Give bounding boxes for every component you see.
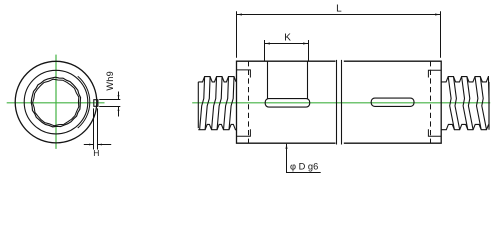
dimension K extension lines: [264, 40, 266, 61]
dimension W h9 line: [118, 92, 120, 100]
hidden line left: [248, 61, 250, 143]
leader line for diameter D: [287, 144, 321, 173]
svg-text:H: H: [93, 148, 99, 158]
screw shaft thread right section: [441, 77, 489, 130]
wiper ring edge right top: [428, 70, 441, 77]
wiper ring edge left bottom: [237, 129, 251, 136]
screw thread crest circle (jagged): [31, 77, 80, 127]
nut body left half outline: [237, 61, 336, 143]
svg-text:K: K: [284, 33, 291, 44]
dimension H line: [84, 144, 94, 146]
screw shaft thread left section: [198, 77, 236, 130]
wiper ring edge left top: [237, 70, 251, 78]
centerline horizontal (end view): [7, 102, 105, 104]
centerline (side view): [192, 102, 490, 104]
key tab: [94, 100, 98, 107]
screw thread root circle (jagged): [33, 79, 79, 126]
wiper ring circle: [24, 70, 88, 134]
wiper ring edge right bottom: [428, 129, 441, 136]
svg-text:L: L: [336, 3, 342, 14]
svg-text:φ D g6: φ D g6: [290, 161, 318, 171]
dimension L line: [237, 14, 441, 16]
dimension K line: [265, 43, 309, 45]
nut outer circle: [15, 61, 97, 143]
nut halves junction lines: [336, 60, 338, 145]
svg-text:Wh9: Wh9: [105, 71, 115, 91]
slot left (obround): [265, 99, 310, 108]
dimension H extension lines: [93, 108, 95, 149]
ball return channel right wall: [307, 61, 309, 99]
ball return channel left wall: [267, 61, 269, 99]
centerline vertical (end view): [55, 55, 57, 149]
slot right (obround): [371, 98, 414, 106]
dimension W h9 extension lines: [99, 99, 120, 101]
wiper ring outer arc (right side): [78, 76, 90, 128]
nut body right half outline: [344, 61, 441, 143]
dimension L extension lines: [236, 11, 238, 58]
hidden line right: [430, 61, 432, 143]
